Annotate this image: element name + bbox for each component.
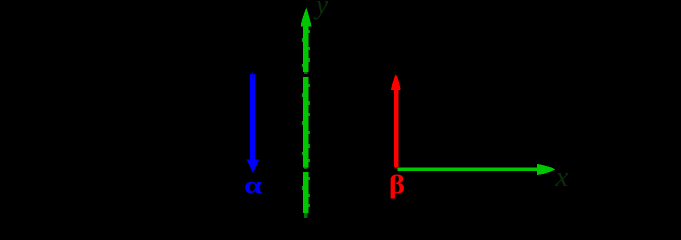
svg-text:y: y	[313, 0, 328, 20]
y-axis shaft segment 1	[303, 24, 309, 72]
y-axis shaft segment 3	[303, 172, 309, 213]
vector beta shaft bottom taper	[395, 167, 398, 169]
vector alpha shaft top taper	[251, 73, 253, 76]
svg-text:β: β	[389, 171, 405, 199]
y-axis arrowhead	[301, 8, 312, 27]
y-axis shaft nub below gap	[304, 168, 307, 170]
vector alpha arrowhead	[247, 160, 260, 174]
y-axis shaft segment 2	[303, 77, 309, 168]
x-axis shaft	[397, 168, 537, 172]
y-axis edge jitter	[302, 30, 310, 207]
vector beta arrowhead	[391, 75, 401, 91]
svg-text:x: x	[555, 161, 569, 193]
y-axis shaft tail	[304, 213, 307, 218]
vector alpha shaft	[250, 74, 255, 160]
vector beta shaft	[394, 88, 399, 167]
x-axis arrowhead	[537, 164, 556, 175]
svg-text:α: α	[244, 173, 262, 199]
y-axis shaft nub above gap	[304, 72, 307, 74]
